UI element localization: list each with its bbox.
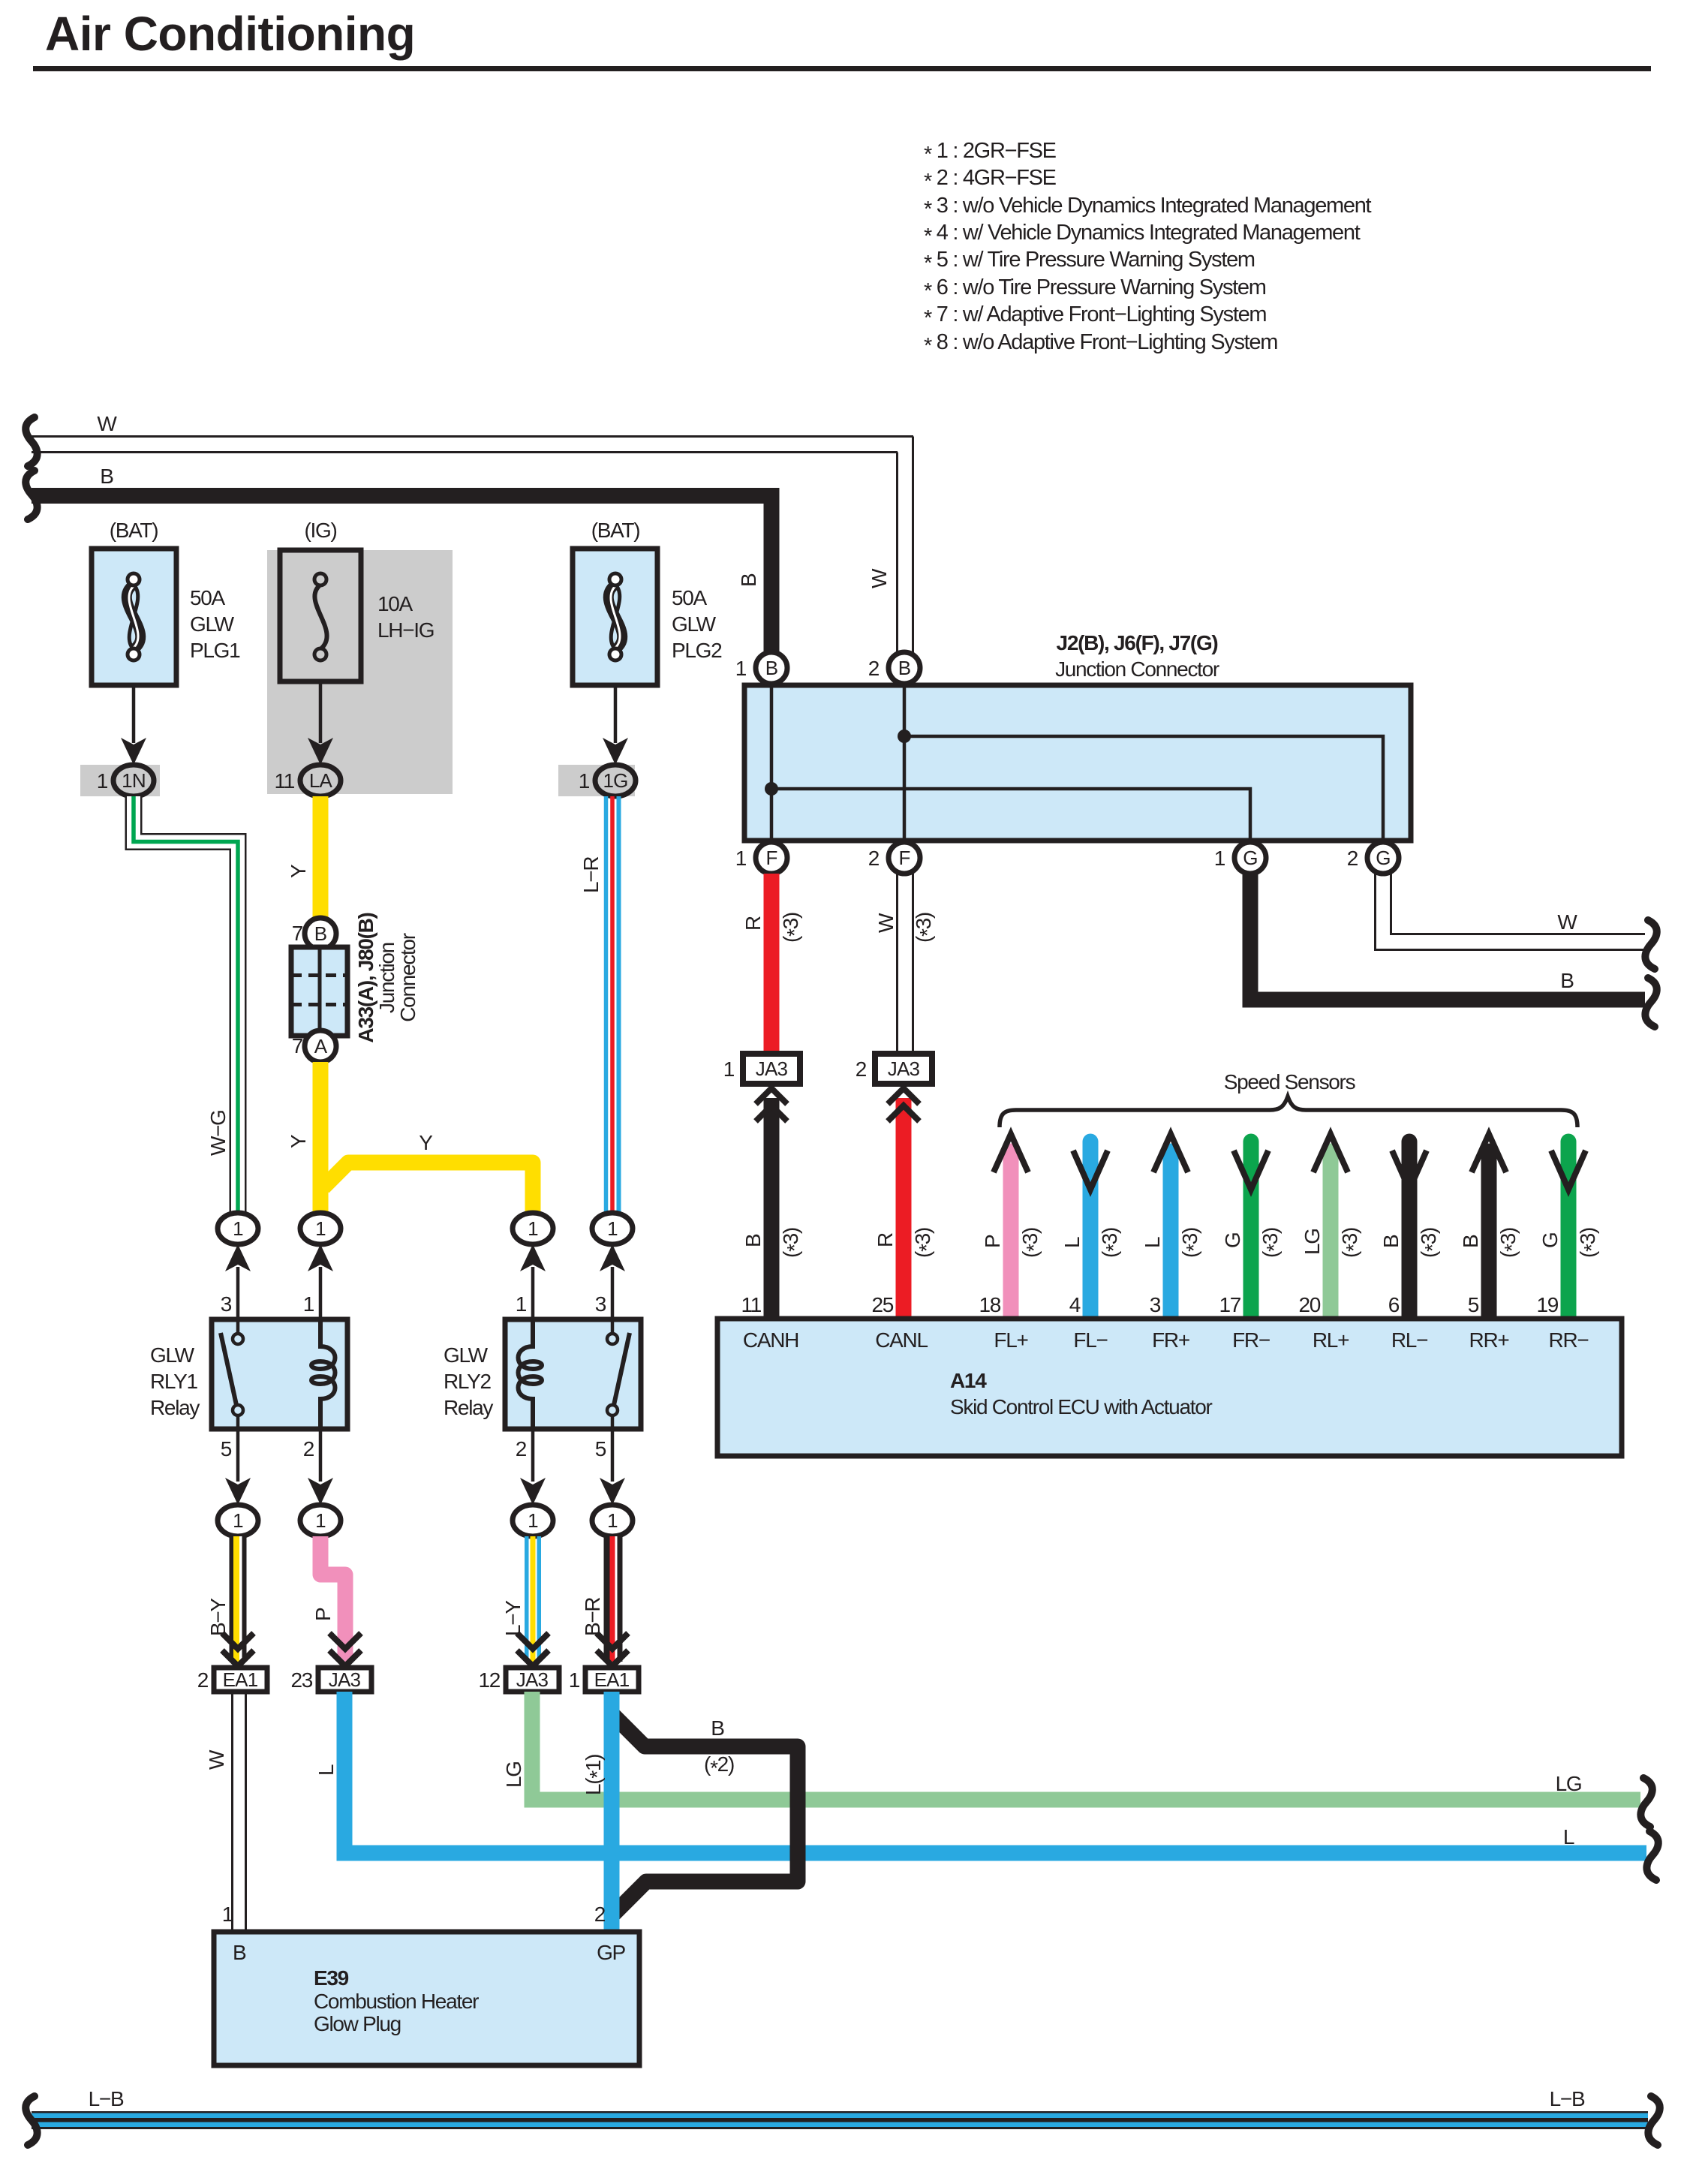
- internal wire 2B-2F: [903, 668, 907, 858]
- connector 1 JA3 box: [743, 1054, 800, 1084]
- svg-text:GLW: GLW: [672, 612, 717, 636]
- wire L-B bottom: [32, 2113, 1648, 2128]
- svg-text:G: G: [1221, 1233, 1244, 1248]
- wire P FL+: [1003, 1151, 1019, 1319]
- svg-text:* 3 : w/o Vehicle Dynamics Int: * 3 : w/o Vehicle Dynamics Integrated Ma…: [924, 194, 1372, 221]
- svg-text:GLW: GLW: [190, 612, 235, 636]
- wire W from 2G to right break (white): [1376, 874, 1646, 950]
- oval 1 (L-R): [592, 1213, 633, 1244]
- svg-text:GLW: GLW: [444, 1343, 489, 1367]
- terminal 2G: [1367, 842, 1399, 874]
- svg-text:A33(A), J80(B): A33(A), J80(B): [354, 913, 377, 1042]
- svg-text:5: 5: [221, 1437, 232, 1461]
- A33 terminal A: [305, 1030, 336, 1062]
- svg-text:(*3): (*3): [779, 913, 806, 943]
- oval 1 (W-G): [218, 1213, 258, 1244]
- svg-text:12: 12: [478, 1668, 500, 1692]
- svg-text:G: G: [1243, 847, 1257, 869]
- internal wire to 2G: [904, 736, 1383, 858]
- svg-text:Skid Control ECU with Actuator: Skid Control ECU with Actuator: [950, 1395, 1212, 1418]
- relay GLW RLY1 box: [212, 1319, 347, 1429]
- oval 1 (Y): [300, 1213, 341, 1244]
- svg-text:* 5 : w/ Tire Pressure Warning: * 5 : w/ Tire Pressure Warning System: [924, 248, 1255, 275]
- svg-text:2: 2: [868, 657, 880, 680]
- fuse GLW PLG1 box: [92, 549, 176, 685]
- terminal 1F: [756, 842, 787, 874]
- svg-text:1: 1: [303, 1292, 314, 1316]
- svg-text:LG: LG: [502, 1761, 525, 1788]
- svg-text:LH−IG: LH−IG: [377, 618, 434, 642]
- fuse2 lead wire: [319, 681, 323, 743]
- wire B RL-: [1402, 1142, 1418, 1319]
- fuse2 element symbol: [314, 573, 327, 660]
- leads from relays down + arrowheads into ovals: [238, 1429, 612, 1482]
- svg-text:2: 2: [197, 1668, 209, 1692]
- svg-text:(*3): (*3): [1338, 1228, 1365, 1258]
- svg-text:E39: E39: [314, 1966, 349, 1990]
- svg-text:B: B: [100, 465, 113, 488]
- fuse1 element symbol: [127, 573, 140, 660]
- wire P: [320, 1536, 345, 1662]
- arrow up FL+: [994, 1134, 1028, 1172]
- svg-text:RL−: RL−: [1391, 1328, 1427, 1352]
- svg-text:L−B: L−B: [89, 2087, 124, 2110]
- svg-text:3: 3: [1150, 1293, 1161, 1316]
- break symbol B left: [26, 471, 37, 519]
- svg-text:F: F: [898, 847, 910, 869]
- svg-text:B: B: [314, 922, 327, 945]
- svg-text:GLW: GLW: [150, 1343, 195, 1367]
- svg-text:B: B: [1379, 1235, 1403, 1248]
- wire Y branch to relay2: [323, 1163, 533, 1213]
- wire B from 1G to right break: [1250, 874, 1645, 1000]
- fuse1 arrowhead down: [121, 738, 146, 765]
- svg-text:Combustion Heater: Combustion Heater: [314, 1990, 479, 2013]
- svg-text:W−G: W−G: [206, 1110, 230, 1156]
- fuse3 arrowhead down: [603, 738, 628, 765]
- svg-text:2: 2: [516, 1437, 527, 1461]
- svg-text:GP: GP: [597, 1941, 625, 1964]
- svg-text:2: 2: [1347, 847, 1358, 870]
- wire G RR-: [1561, 1142, 1577, 1319]
- svg-text:P: P: [981, 1235, 1004, 1248]
- A33 junction connector box: [291, 947, 347, 1036]
- svg-text:L−B: L−B: [1550, 2087, 1585, 2110]
- title rule: [33, 66, 1651, 71]
- break symbol LG right: [1640, 1778, 1652, 1827]
- svg-text:* 1 : 2GR−FSE: * 1 : 2GR−FSE: [924, 139, 1057, 167]
- wire G FR-: [1243, 1142, 1259, 1319]
- svg-text:(*3): (*3): [1098, 1228, 1125, 1258]
- wire Y from LA to A33 B: [313, 796, 329, 918]
- svg-text:B: B: [737, 573, 760, 587]
- wire L(*1) from 1 EA1 to E39 GP: [604, 1692, 620, 1932]
- svg-text:2: 2: [594, 1903, 606, 1926]
- svg-text:G: G: [1376, 847, 1390, 869]
- wire Y from A33 A down: [313, 1062, 329, 1213]
- svg-text:1: 1: [579, 769, 590, 793]
- arrow up RR+: [1472, 1134, 1506, 1172]
- wire W from 2F to JA3 (white): [898, 874, 913, 1054]
- fuse LH-IG box: [280, 550, 361, 681]
- svg-text:L−Y: L−Y: [501, 1600, 525, 1636]
- svg-text:A14: A14: [950, 1369, 987, 1392]
- svg-text:B−R: B−R: [581, 1598, 604, 1636]
- svg-text:1: 1: [607, 1217, 618, 1240]
- svg-text:1: 1: [528, 1217, 538, 1240]
- svg-text:Junction Connector: Junction Connector: [1055, 657, 1219, 681]
- connector 1G oval: [595, 765, 636, 796]
- svg-text:R: R: [874, 1233, 897, 1247]
- svg-text:FR−: FR−: [1232, 1328, 1270, 1352]
- svg-text:7: 7: [292, 1034, 303, 1057]
- svg-text:7: 7: [292, 922, 303, 945]
- connector 12 JA3: [506, 1668, 559, 1692]
- svg-text:CANH: CANH: [743, 1328, 798, 1352]
- svg-text:1: 1: [233, 1217, 243, 1240]
- svg-text:2: 2: [868, 847, 880, 870]
- arrow down RR-: [1551, 1151, 1586, 1190]
- svg-text:(BAT): (BAT): [591, 519, 640, 542]
- svg-text:RLY2: RLY2: [444, 1370, 491, 1393]
- wire L-Y: [527, 1536, 540, 1662]
- terminal 2F: [889, 842, 920, 874]
- svg-text:1: 1: [222, 1903, 233, 1926]
- break symbol L-B left: [26, 2096, 37, 2145]
- svg-text:11: 11: [741, 1293, 762, 1316]
- svg-text:2: 2: [856, 1057, 867, 1081]
- svg-text:EA1: EA1: [223, 1668, 258, 1691]
- svg-text:1: 1: [315, 1217, 326, 1240]
- svg-text:CANL: CANL: [875, 1328, 928, 1352]
- relay2 coil: [519, 1319, 543, 1429]
- svg-text:W: W: [97, 412, 117, 435]
- svg-text:LG: LG: [1301, 1229, 1324, 1255]
- svg-text:Speed Sensors: Speed Sensors: [1224, 1070, 1355, 1094]
- internal wire 1B-1F: [770, 668, 774, 858]
- wire W-G from 1N (white w/ green stripe): [134, 796, 238, 1213]
- svg-text:1G: 1G: [603, 769, 627, 792]
- svg-text:1: 1: [569, 1668, 580, 1692]
- svg-text:Y: Y: [287, 1134, 310, 1148]
- wire B-Y: [231, 1536, 244, 1662]
- svg-text:W: W: [868, 568, 891, 588]
- fuse GLW PLG2 box: [573, 549, 657, 685]
- wire W from 2 EA1 to E39 (white): [233, 1692, 246, 1932]
- svg-text:(*2): (*2): [704, 1752, 734, 1779]
- svg-text:L: L: [314, 1764, 338, 1776]
- grey region behind IG fuse: [267, 550, 453, 794]
- wire L FR+: [1163, 1151, 1179, 1319]
- chevron arrow up into 1 JA3: [756, 1088, 787, 1121]
- svg-text:L: L: [1563, 1825, 1574, 1849]
- svg-text:1: 1: [735, 657, 747, 680]
- wire B RR+: [1481, 1151, 1497, 1319]
- svg-text:Y: Y: [419, 1131, 433, 1154]
- arrow down RL-: [1392, 1151, 1427, 1190]
- svg-text:1N: 1N: [122, 769, 146, 792]
- svg-text:R: R: [741, 916, 765, 931]
- svg-text:50A: 50A: [190, 586, 226, 609]
- fuse3 element symbol: [609, 573, 622, 660]
- svg-text:(*3): (*3): [912, 913, 939, 943]
- svg-text:11: 11: [275, 769, 295, 793]
- wire B-R: [607, 1536, 621, 1662]
- svg-text:(*3): (*3): [911, 1228, 938, 1258]
- svg-text:(*3): (*3): [1258, 1228, 1286, 1258]
- svg-text:B: B: [898, 657, 911, 679]
- connector 23 JA3: [318, 1668, 371, 1692]
- svg-text:Connector: Connector: [396, 933, 419, 1021]
- svg-text:4: 4: [1069, 1293, 1081, 1316]
- ECU A14 box: [717, 1319, 1622, 1456]
- terminal 2B: [889, 652, 920, 684]
- svg-text:10A: 10A: [377, 592, 413, 615]
- svg-text:JA3: JA3: [888, 1057, 920, 1080]
- svg-text:P: P: [311, 1608, 335, 1621]
- svg-text:1: 1: [233, 1509, 243, 1532]
- svg-text:(*3): (*3): [779, 1228, 806, 1258]
- terminal 1G: [1234, 842, 1266, 874]
- svg-text:G: G: [1538, 1233, 1562, 1248]
- svg-text:LA: LA: [309, 769, 333, 792]
- svg-text:* 6 : w/o Tire Pressure Warnin: * 6 : w/o Tire Pressure Warning System: [924, 275, 1266, 303]
- svg-text:PLG1: PLG1: [190, 639, 240, 662]
- wire LG RL+: [1323, 1151, 1339, 1319]
- svg-text:(BAT): (BAT): [110, 519, 158, 542]
- row of 1-ovals below relays: [218, 1505, 258, 1536]
- wire LG from 12 JA3 to right break: [532, 1692, 1640, 1800]
- svg-text:JA3: JA3: [329, 1668, 361, 1691]
- svg-text:FL−: FL−: [1073, 1328, 1107, 1352]
- relay2 switch: [607, 1319, 630, 1429]
- connector LA oval: [300, 765, 341, 796]
- svg-text:50A: 50A: [672, 586, 708, 609]
- svg-text:FR+: FR+: [1152, 1328, 1189, 1352]
- relay1 coil: [311, 1319, 335, 1429]
- wire L FL-: [1083, 1142, 1099, 1319]
- wire L from 23 JA3 to right break: [344, 1692, 1646, 1853]
- svg-text:F: F: [765, 847, 777, 869]
- svg-text:1: 1: [528, 1509, 538, 1532]
- svg-text:W: W: [205, 1749, 228, 1770]
- svg-text:23: 23: [290, 1668, 312, 1692]
- arrow down FL-: [1073, 1151, 1108, 1190]
- A33 terminal B: [305, 918, 336, 949]
- svg-text:Y: Y: [287, 864, 310, 878]
- svg-text:RL+: RL+: [1313, 1328, 1349, 1352]
- svg-text:(*3): (*3): [1417, 1228, 1444, 1258]
- svg-text:FL+: FL+: [994, 1328, 1027, 1352]
- svg-text:1: 1: [315, 1509, 326, 1532]
- svg-text:W: W: [874, 913, 898, 933]
- break symbol L right: [1646, 1831, 1658, 1880]
- connector 1N oval: [113, 765, 154, 796]
- svg-text:B−Y: B−Y: [206, 1598, 230, 1636]
- svg-text:A: A: [314, 1035, 328, 1057]
- svg-text:L: L: [1141, 1237, 1164, 1248]
- svg-text:17: 17: [1219, 1293, 1240, 1316]
- junction dot 2B: [898, 730, 911, 743]
- svg-text:B: B: [765, 657, 778, 679]
- svg-text:25: 25: [871, 1293, 893, 1316]
- terminal 1B: [756, 652, 787, 684]
- svg-text:* 7 : w/ Adaptive Front−Lighti: * 7 : w/ Adaptive Front−Lighting System: [924, 302, 1266, 330]
- svg-text:Glow Plug: Glow Plug: [314, 2012, 401, 2035]
- svg-text:W: W: [1557, 910, 1577, 934]
- relay GLW RLY2 box: [505, 1319, 641, 1429]
- svg-text:18: 18: [979, 1293, 1000, 1316]
- svg-text:1: 1: [1214, 847, 1225, 870]
- A33 grid vertical: [318, 947, 322, 1036]
- svg-text:PLG2: PLG2: [672, 639, 722, 662]
- svg-text:L−R: L−R: [579, 857, 603, 893]
- arrows up into ovals + leads to relays: [225, 1244, 625, 1271]
- svg-text:2: 2: [303, 1437, 314, 1461]
- svg-text:RR+: RR+: [1469, 1328, 1509, 1352]
- svg-text:1: 1: [607, 1509, 618, 1532]
- wire R CANL: [896, 1098, 912, 1319]
- svg-text:* 4 : w/ Vehicle Dynamics Inte: * 4 : w/ Vehicle Dynamics Integrated Man…: [924, 221, 1361, 248]
- svg-text:JA3: JA3: [756, 1057, 788, 1080]
- svg-text:RLY1: RLY1: [150, 1370, 197, 1393]
- wire B CANH: [764, 1098, 780, 1319]
- grey band behind 1G: [558, 765, 635, 796]
- svg-text:B: B: [741, 1234, 765, 1247]
- junction connector box: [744, 685, 1411, 841]
- fuse3 lead wire: [614, 685, 618, 743]
- connector 2 JA3 box: [875, 1054, 932, 1084]
- svg-text:(*3): (*3): [1496, 1228, 1523, 1258]
- wire L-R from 1G down: [606, 796, 619, 1213]
- svg-text:1: 1: [735, 847, 747, 870]
- chevron arrow up into 2 JA3: [888, 1088, 919, 1121]
- chevrons down into EA1/JA3 row: [222, 1633, 628, 1666]
- svg-text:3: 3: [595, 1292, 606, 1316]
- svg-text:LG: LG: [1556, 1772, 1582, 1795]
- svg-text:1: 1: [723, 1057, 735, 1081]
- svg-text:B: B: [711, 1716, 724, 1740]
- wire B top horizontal (black): [32, 496, 771, 668]
- wire B (*2) alternate: [609, 1711, 798, 1918]
- arrow up FR+: [1153, 1134, 1188, 1172]
- speed sensors brace: [1000, 1097, 1577, 1127]
- svg-text:RR−: RR−: [1549, 1328, 1589, 1352]
- arrow up RL+: [1313, 1134, 1348, 1172]
- svg-text:5: 5: [595, 1437, 606, 1461]
- connector 1 EA1: [585, 1668, 639, 1692]
- fuse2 arrowhead down: [308, 738, 333, 765]
- svg-text:* 8 : w/o Adaptive Front−Light: * 8 : w/o Adaptive Front−Lighting System: [924, 330, 1277, 358]
- svg-text:20: 20: [1298, 1293, 1320, 1316]
- svg-text:(*3): (*3): [1576, 1228, 1603, 1258]
- relay1 switch: [221, 1319, 243, 1429]
- svg-text:EA1: EA1: [594, 1668, 630, 1691]
- svg-text:5: 5: [1468, 1293, 1479, 1316]
- grey band behind 1N: [80, 765, 160, 796]
- svg-text:Relay: Relay: [150, 1396, 200, 1419]
- svg-text:6: 6: [1388, 1293, 1400, 1316]
- internal wire to 1G: [771, 789, 1250, 858]
- svg-text:JA3: JA3: [516, 1668, 549, 1691]
- svg-text:B: B: [233, 1941, 246, 1964]
- svg-text:J2(B), J6(F), J7(G): J2(B), J6(F), J7(G): [1057, 631, 1218, 654]
- E39 Combustion Heater Glow Plug box: [214, 1932, 639, 2065]
- oval 1 (Y branch): [513, 1213, 553, 1244]
- svg-text:Air Conditioning: Air Conditioning: [45, 7, 415, 61]
- svg-text:19: 19: [1536, 1293, 1558, 1316]
- wire W top horizontal (white wire): [32, 437, 913, 668]
- svg-text:1: 1: [97, 769, 108, 793]
- break symbol W left: [26, 417, 37, 466]
- connector 2 EA1: [214, 1668, 267, 1692]
- svg-text:(*3): (*3): [1178, 1228, 1205, 1258]
- fuse1 lead wire: [132, 685, 136, 743]
- svg-text:B: B: [1459, 1235, 1482, 1248]
- svg-text:B: B: [1560, 969, 1574, 992]
- wire R from 1F to JA3: [764, 874, 780, 1054]
- svg-text:Junction: Junction: [375, 943, 398, 1013]
- svg-text:* 2 : 4GR−FSE: * 2 : 4GR−FSE: [924, 166, 1057, 194]
- svg-text:1: 1: [516, 1292, 527, 1316]
- break symbol W right: [1645, 920, 1656, 969]
- svg-text:(*3): (*3): [1018, 1228, 1045, 1258]
- svg-text:L(*1): L(*1): [582, 1755, 609, 1795]
- arrow down FR-: [1234, 1151, 1268, 1190]
- junction dot 1B: [765, 782, 778, 796]
- svg-text:(IG): (IG): [304, 519, 336, 542]
- break symbol L-B right: [1648, 2096, 1659, 2145]
- A33 grid dashed rows: [291, 973, 347, 977]
- break symbol B right: [1645, 978, 1656, 1027]
- svg-text:L: L: [1060, 1237, 1084, 1248]
- svg-text:Relay: Relay: [444, 1396, 493, 1419]
- svg-text:3: 3: [221, 1292, 232, 1316]
